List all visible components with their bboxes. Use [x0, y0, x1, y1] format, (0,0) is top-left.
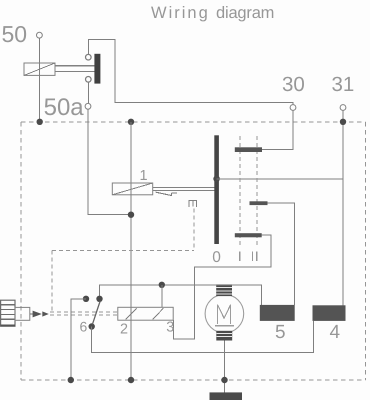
- motor M body: [205, 294, 244, 333]
- terminal 31: [340, 105, 346, 111]
- wire top brush rail to block 5: [195, 285, 262, 305]
- key lock cylinder: [1, 300, 15, 326]
- motor M glyph: [218, 305, 231, 324]
- svg-text:4: 4: [330, 322, 341, 343]
- position guide dashed I: [239, 136, 241, 247]
- switch 6 blade: [92, 301, 100, 324]
- wire contact30 to terminal: [262, 110, 293, 149]
- actuator stem: [30, 313, 33, 315]
- ignition switch bar: [214, 135, 219, 244]
- motor bottom brush: [216, 331, 232, 341]
- node winding 3 branch: [159, 282, 165, 288]
- contact 30: [235, 147, 262, 152]
- wire switch6 A to ground rail: [71, 299, 86, 380]
- block 5: [260, 305, 295, 321]
- actuation double dashed line: [50, 312, 118, 315]
- svg-text:0: 0: [212, 249, 221, 266]
- svg-text:30: 30: [282, 73, 305, 96]
- relay coil 1: [112, 183, 152, 195]
- armature linkage relay 1: [153, 188, 215, 191]
- wire switch6 to contactII line: [100, 285, 195, 299]
- svg-text:diagram: diagram: [216, 4, 274, 22]
- svg-text:50: 50: [2, 21, 28, 47]
- switch 6 contact A: [83, 296, 89, 302]
- wire switch6 C to block 4: [92, 321, 314, 353]
- wire contactI to block 5: [268, 203, 295, 305]
- contact I: [250, 201, 268, 205]
- wire contact to terminal 30: [88, 40, 293, 105]
- node 31 on border: [340, 119, 346, 125]
- svg-text:50a: 50a: [44, 94, 85, 121]
- motor M underline: [215, 325, 234, 327]
- actuator arrow: [33, 311, 42, 318]
- battery plate: [210, 392, 243, 400]
- node 50a junction: [128, 212, 134, 218]
- armature pawl: [156, 192, 177, 195]
- mechanical latch symbol m: [188, 201, 197, 208]
- node relay1 on border: [128, 119, 134, 125]
- wire branch to winding 3: [161, 285, 163, 308]
- relay coil K50: [24, 63, 55, 75]
- label II: [252, 252, 254, 261]
- position guide dashed II: [256, 136, 258, 247]
- contact circle lower: [86, 77, 92, 83]
- terminal 30: [290, 105, 296, 111]
- key actuator box: [15, 307, 30, 320]
- wire motor to battery: [224, 341, 226, 393]
- wire lower contact to 50a: [87, 82, 89, 103]
- wire relay 1 main vertical: [130, 122, 132, 380]
- contact bar K50: [94, 54, 100, 84]
- armature linkage K50: [55, 66, 94, 72]
- wire contactII return: [174, 235, 271, 339]
- node ground rail battery: [221, 377, 227, 383]
- svg-text:1: 1: [140, 168, 148, 184]
- label I: [239, 252, 241, 261]
- motor top brush: [216, 284, 232, 296]
- wire pivot to 31: [217, 178, 343, 180]
- node ground rail left: [68, 377, 74, 383]
- contact circle upper: [86, 54, 92, 60]
- enclosure dashed border: [21, 122, 365, 380]
- switch 6 contact B: [96, 296, 102, 302]
- wire 50a down to node: [88, 109, 131, 215]
- node 50 on border: [37, 119, 43, 125]
- svg-text:5: 5: [275, 322, 286, 343]
- svg-text:3: 3: [166, 319, 174, 335]
- wire 31 down: [342, 110, 344, 305]
- actuator arrow tip: [42, 311, 49, 316]
- terminal 50: [37, 32, 43, 38]
- winding box 2-3: [118, 307, 173, 320]
- block 4: [313, 305, 346, 321]
- svg-text:31: 31: [332, 73, 355, 96]
- terminal 50a: [85, 103, 91, 109]
- node ground rail mid: [128, 377, 134, 383]
- svg-text:Wiring: Wiring: [151, 4, 210, 22]
- contact II: [235, 233, 262, 237]
- wire 50 vertical: [38, 38, 40, 122]
- pivot node: [213, 176, 220, 183]
- mechanical dashed linkage to key: [52, 209, 194, 312]
- switch 6 contact C: [89, 323, 95, 329]
- svg-text:2: 2: [120, 321, 128, 337]
- svg-text:6: 6: [80, 319, 88, 335]
